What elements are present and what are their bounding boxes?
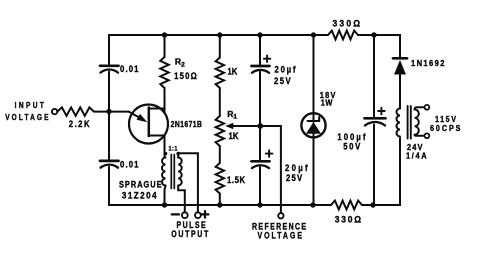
transformer T2 secondary coil 24V (397, 109, 400, 137)
node 330 top right (371, 32, 376, 37)
label REFERENCE VOLTAGE (252, 222, 307, 241)
wire 20uf lower (259, 167, 261, 205)
label 24V 1/4A (406, 143, 428, 161)
svg-text:31Z204: 31Z204 (122, 190, 158, 201)
node T1 dot right (176, 152, 180, 156)
transformer T1 core (171, 155, 174, 189)
svg-text:INPUT: INPUT (15, 100, 47, 110)
transformer T1 primary coil (162, 158, 165, 186)
svg-text:SPRAGUE: SPRAGUE (119, 179, 163, 190)
svg-text:1/4A: 1/4A (406, 151, 428, 161)
resistor R2 150 ohm (160, 57, 198, 89)
wire base1 down (164, 136, 166, 158)
terminal REFERENCE (278, 213, 283, 218)
wire input to node (94, 111, 129, 113)
node R2 top (162, 32, 167, 37)
svg-text:VOLTAGE: VOLTAGE (5, 112, 50, 122)
wire 1K top (219, 35, 221, 58)
wire 1.5K bottom (219, 194, 221, 206)
svg-text:20µf: 20µf (285, 163, 310, 173)
svg-text:1W: 1W (321, 98, 333, 108)
svg-text:2.2K: 2.2K (69, 120, 91, 130)
capacitor C5 100uf 50V (337, 108, 385, 152)
svg-text:330Ω: 330Ω (333, 18, 363, 29)
svg-text:330Ω: 330Ω (335, 214, 363, 225)
svg-text:50V: 50V (343, 142, 362, 152)
capacitor C2 0.01 bottom (100, 160, 140, 170)
capacitor C3 20uf 25V upper (252, 55, 298, 86)
transformer T2 primary coil 115V (415, 110, 419, 135)
wire 20uf middle (259, 72, 261, 160)
svg-text:OUTPUT: OUTPUT (171, 229, 210, 239)
label 115V 60CPS (430, 114, 462, 133)
resistor 2.2K (57, 107, 94, 129)
wire R2 to transistor (164, 88, 166, 113)
transformer T1 secondary coil (178, 158, 182, 186)
label pulse polarity signs (172, 211, 209, 218)
terminal pulse plus (195, 212, 201, 218)
node 1.5K rail (217, 202, 222, 207)
svg-text:60CPS: 60CPS (430, 123, 462, 133)
svg-text:1:1: 1:1 (169, 146, 178, 152)
svg-text:0.01: 0.01 (120, 160, 140, 170)
wire bottom rail right segment (362, 138, 400, 205)
label PULSE OUTPUT (171, 220, 210, 239)
wire bottom rail left segment (109, 204, 331, 206)
wire T1 secondary bottom to minus terminal (178, 186, 185, 213)
node junction input (106, 109, 111, 114)
terminal 115V bottom (425, 133, 430, 138)
resistor R4 330 ohm bottom (331, 201, 363, 225)
resistor 1K upper (216, 58, 238, 89)
wire left branch middle (108, 72, 110, 160)
transistor Q1 2N1671B (129, 105, 203, 144)
svg-text:100µf: 100µf (337, 133, 367, 143)
svg-text:150Ω: 150Ω (174, 71, 198, 81)
svg-text:R1: R1 (227, 109, 237, 121)
diode D2 1N1692 (393, 58, 446, 74)
svg-text:1K: 1K (229, 132, 239, 142)
wire left branch lower (108, 167, 110, 205)
capacitor C4 20uf 25V lower (252, 150, 310, 183)
wire left branch upper (108, 35, 110, 65)
wire top rail right segment (358, 35, 400, 57)
svg-text:0.01: 0.01 (120, 65, 140, 75)
resistor R3 330 ohm top (314, 18, 362, 39)
wire diode to transformer (399, 75, 401, 109)
wire R1 to 1.5K (219, 146, 221, 163)
svg-text:25V: 25V (274, 77, 292, 87)
wire 1K to R1 (219, 88, 221, 116)
terminal pulse minus (182, 212, 188, 218)
svg-text:1.5K: 1.5K (227, 176, 246, 186)
node zener rail (310, 202, 315, 207)
svg-text:R2: R2 (175, 57, 185, 69)
node T1 dot left (164, 152, 168, 156)
node wiper cap junction (257, 123, 263, 129)
svg-text:2N1671B: 2N1671B (171, 119, 203, 129)
node 20uf rail (257, 202, 262, 207)
wire 100uf upper (373, 35, 375, 117)
svg-text:20µf: 20µf (275, 65, 298, 75)
wire R2 top (164, 35, 166, 57)
diode zener D1 18V 1W (301, 91, 336, 138)
wire 20uf upper (259, 35, 261, 65)
wire T2 primary top terminal (415, 107, 425, 109)
wire zener lower (313, 137, 315, 205)
transformer T2 core (408, 106, 411, 139)
capacitor C1 0.01 top (100, 65, 140, 75)
svg-text:VOLTAGE: VOLTAGE (258, 230, 304, 240)
wire T1 secondary top to plus terminal (178, 153, 198, 212)
label SPRAGUE 31Z204 (119, 179, 163, 201)
resistor R1 1K potentiometer (216, 109, 239, 146)
node 330 bottom right (370, 202, 375, 207)
wire zener upper (313, 35, 315, 113)
terminal 115V top (425, 105, 430, 110)
svg-text:25V: 25V (286, 174, 303, 184)
svg-text:1N1692: 1N1692 (411, 59, 446, 69)
wire top rail left segment (109, 34, 314, 36)
wire T2 primary bottom terminal (415, 135, 425, 136)
node 1K top (217, 32, 222, 37)
node T1 rail (162, 202, 167, 207)
wire R1 wiper to reference (229, 126, 281, 213)
node 20uf top (257, 32, 262, 37)
wire T1 primary bottom (165, 186, 166, 206)
resistor 1.5K (216, 163, 246, 194)
node zener top (311, 32, 316, 37)
terminal INPUT (52, 109, 57, 114)
arrow R1 wiper (225, 123, 233, 130)
svg-text:1K: 1K (228, 67, 238, 77)
label INPUT VOLTAGE (5, 100, 50, 122)
wire 100uf lower (373, 125, 375, 206)
